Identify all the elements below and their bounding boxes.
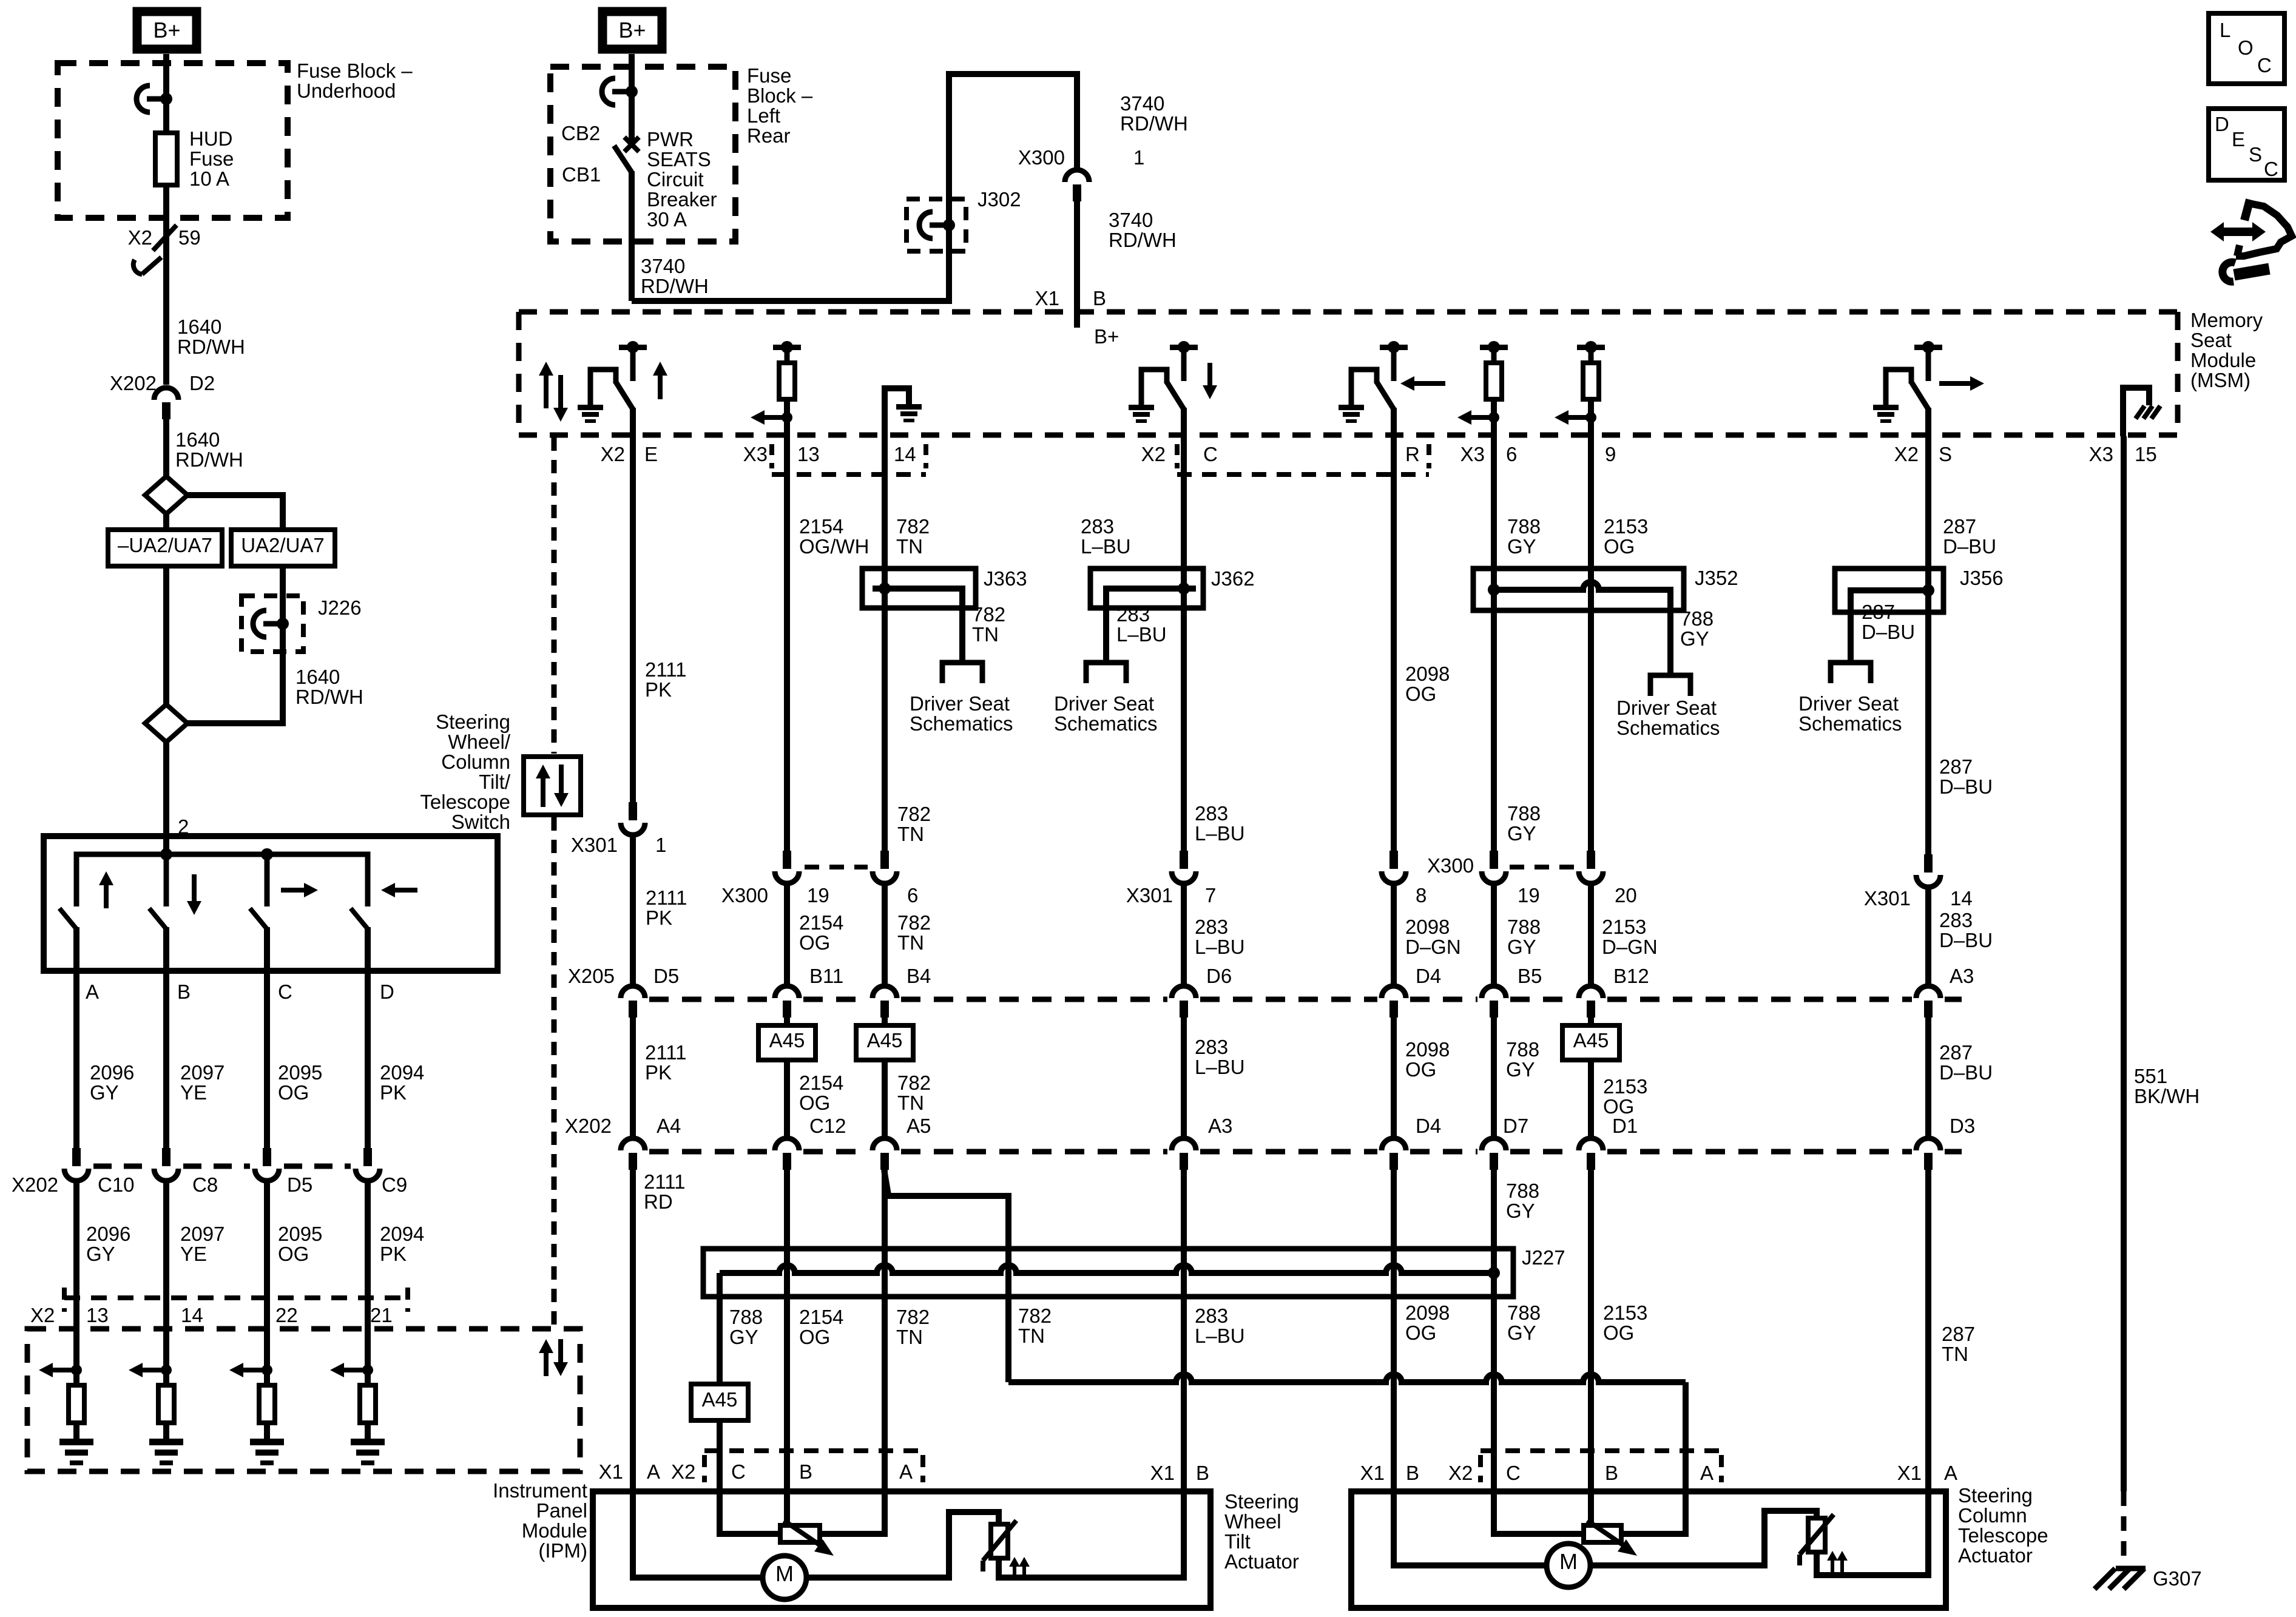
svg-text:13: 13 — [86, 1304, 109, 1326]
wire J352 to X300 pin 19 — [1491, 590, 1497, 851]
bus junction C — [261, 848, 273, 860]
MSM switch arm — [1911, 381, 1929, 410]
IPM ground — [59, 1439, 93, 1445]
wire pin 6 down (788 GY) — [1491, 435, 1497, 569]
svg-text:GY: GY — [1506, 1200, 1535, 1222]
wire X202 to X2 row — [264, 1183, 270, 1329]
wire D3 down (287 TN) — [1925, 1170, 1931, 1491]
svg-text:788: 788 — [729, 1306, 763, 1328]
wire J226 to diamond — [187, 652, 283, 723]
svg-text:9: 9 — [1605, 443, 1616, 465]
connector X300 pin 19 — [783, 851, 791, 869]
svg-text:Column: Column — [1958, 1504, 2027, 1527]
svg-text:GY: GY — [90, 1081, 119, 1104]
MSM switch contact hook — [1351, 370, 1377, 407]
svg-text:Tilt: Tilt — [1224, 1530, 1251, 1553]
connector X205 (x=1951) — [1172, 986, 1196, 998]
wire branch to UA2/UA7 — [187, 495, 283, 530]
connector X202 (x=1043) — [621, 1138, 645, 1150]
svg-text:782: 782 — [897, 1072, 931, 1094]
wire through J352 — [1588, 569, 1594, 851]
circuit breaker contact X — [624, 137, 639, 152]
MSM switch arm — [1166, 381, 1184, 410]
fuse block left rear box — [550, 67, 735, 241]
switch output wire B — [163, 927, 169, 971]
svg-text:B: B — [177, 981, 191, 1003]
svg-text:A3: A3 — [1950, 965, 1974, 987]
svg-text:Driver Seat: Driver Seat — [910, 692, 1010, 715]
svg-text:A45: A45 — [867, 1029, 903, 1052]
splice J302 — [907, 199, 966, 251]
wire connector to diamond — [163, 419, 169, 479]
svg-text:D6: D6 — [1206, 965, 1232, 987]
svg-text:2097: 2097 — [180, 1061, 225, 1084]
wire A45 to D1 — [1588, 1060, 1594, 1137]
svg-text:C: C — [731, 1460, 746, 1483]
svg-text:Driver Seat: Driver Seat — [1054, 692, 1154, 715]
svg-text:S: S — [2249, 143, 2262, 166]
connector X205 (x=2462) — [1482, 986, 1506, 998]
IPM input wire — [163, 1329, 169, 1385]
svg-text:Schematics: Schematics — [1054, 712, 1158, 735]
IPM up/down arrows — [544, 1351, 549, 1376]
MSM X2 connector dashes — [1175, 444, 1180, 468]
svg-text:C: C — [1203, 443, 1218, 465]
svg-text:C: C — [2264, 158, 2278, 180]
switch stub C — [265, 854, 270, 906]
svg-text:Driver Seat: Driver Seat — [1616, 697, 1717, 719]
svg-text:L–BU: L–BU — [1195, 1056, 1245, 1078]
MSM X3 connector dashes — [769, 444, 774, 468]
connector X301 pin 14 — [1924, 854, 1933, 873]
svg-text:GY: GY — [1680, 627, 1709, 650]
wire to X205 D5 — [630, 837, 636, 984]
MSM switch supply bar (pin x=2297) — [1380, 345, 1408, 350]
MSM resistor unit supply bar (x=1297) — [773, 345, 801, 350]
svg-text:C: C — [1506, 1462, 1521, 1484]
wire to X205 B5 — [1491, 886, 1497, 984]
svg-text:X3: X3 — [1460, 443, 1485, 465]
IPM signal arrow — [140, 1368, 166, 1372]
MSM resistor output wire — [1491, 399, 1497, 435]
off-page bracket (driver seat) — [1650, 675, 1690, 696]
wire X300 to MSM X1-B — [1074, 201, 1080, 328]
fuse block underhood box — [58, 63, 288, 218]
connector X300 pin 20 — [1587, 851, 1595, 869]
wire A3-D3 (287 D-BU) — [1925, 1018, 1931, 1137]
svg-text:L–BU: L–BU — [1195, 822, 1245, 845]
svg-text:X1: X1 — [1150, 1462, 1175, 1484]
bus junction B — [160, 848, 172, 860]
svg-text:A5: A5 — [907, 1115, 931, 1137]
wire B12 to A45 — [1588, 1018, 1594, 1025]
svg-text:A: A — [1700, 1462, 1714, 1484]
svg-text:OG: OG — [278, 1081, 309, 1104]
svg-text:X300: X300 — [1018, 146, 1065, 169]
connector X202 (x=1951) — [1172, 1138, 1196, 1150]
svg-text:B+: B+ — [153, 18, 180, 42]
wire X202 to X2 row — [163, 1183, 169, 1329]
svg-text:UA2/UA7: UA2/UA7 — [241, 534, 325, 556]
svg-text:RD/WH: RD/WH — [177, 336, 245, 358]
svg-text:OG: OG — [799, 1092, 830, 1114]
svg-text:C8: C8 — [192, 1173, 218, 1196]
svg-text:Module: Module — [2190, 349, 2256, 371]
svg-text:TN: TN — [1942, 1343, 1968, 1365]
tilt pin B wire — [784, 1491, 790, 1527]
boxed up/down arrows — [541, 776, 545, 807]
svg-text:D–GN: D–GN — [1602, 936, 1658, 958]
svg-text:Actuator: Actuator — [1958, 1544, 2033, 1567]
wire fuse to connector — [163, 185, 169, 385]
svg-text:30 A: 30 A — [647, 208, 687, 231]
svg-text:PK: PK — [645, 678, 672, 701]
connector row X202 (left) — [72, 1148, 81, 1166]
svg-text:S: S — [1939, 443, 1952, 465]
svg-text:8: 8 — [1416, 884, 1427, 906]
svg-text:283: 283 — [1195, 1305, 1228, 1327]
svg-text:GY: GY — [1507, 535, 1536, 558]
svg-text:J227: J227 — [1522, 1246, 1565, 1269]
svg-text:287: 287 — [1939, 755, 1973, 778]
telescope breaker slash — [1800, 1514, 1834, 1555]
svg-text:TN: TN — [972, 623, 999, 646]
svg-text:OG: OG — [799, 931, 830, 954]
svg-text:A: A — [86, 981, 99, 1003]
svg-text:RD/WH: RD/WH — [641, 275, 709, 297]
svg-text:A45: A45 — [769, 1029, 805, 1052]
tilt motor M — [763, 1556, 806, 1599]
connector X300 pin 19 (right) — [1490, 851, 1498, 869]
svg-text:788: 788 — [1506, 1038, 1539, 1061]
svg-text:TN: TN — [897, 931, 924, 954]
wire pin R down (2098 OG) — [1391, 435, 1397, 851]
IPM input wire — [365, 1329, 371, 1385]
svg-text:TN: TN — [897, 1092, 924, 1114]
tilt breaker slash — [983, 1521, 1016, 1561]
svg-text:287: 287 — [1862, 601, 1895, 623]
svg-text:283: 283 — [1195, 802, 1228, 825]
wire switch to X202 — [73, 971, 79, 1148]
svg-text:59: 59 — [178, 226, 201, 249]
svg-text:OG: OG — [1604, 535, 1635, 558]
svg-text:2154: 2154 — [799, 1072, 843, 1094]
svg-text:G307: G307 — [2153, 1567, 2202, 1590]
svg-text:B4: B4 — [907, 965, 931, 987]
relay box A45 — [691, 1384, 748, 1420]
svg-text:Telescope: Telescope — [1958, 1524, 2048, 1547]
svg-text:2153: 2153 — [1603, 1075, 1647, 1098]
MSM switch output wire — [1391, 408, 1397, 435]
IPM input wire — [264, 1329, 270, 1385]
svg-text:B: B — [1406, 1462, 1419, 1484]
relay box A45 — [856, 1025, 913, 1060]
fuse block feed contact — [160, 93, 172, 105]
wire 551 BK/WH — [2121, 436, 2127, 1491]
wire J352 to bracket — [1667, 610, 1673, 675]
telescope motor M — [1547, 1544, 1590, 1587]
svg-text:Module: Module — [522, 1519, 587, 1542]
MSM up/down arrows — [544, 373, 549, 408]
svg-text:OG: OG — [1405, 683, 1436, 705]
MSM resistor — [1583, 363, 1599, 399]
switch arm D — [351, 908, 368, 929]
instrument panel module box — [27, 1329, 580, 1471]
svg-text:2094: 2094 — [380, 1223, 424, 1245]
svg-text:RD/WH: RD/WH — [175, 448, 243, 471]
connector X205 (x=1458) — [873, 986, 897, 998]
svg-text:A45: A45 — [702, 1388, 738, 1411]
MSM switch arm — [615, 381, 633, 410]
svg-text:B+: B+ — [1094, 325, 1119, 348]
svg-text:D–BU: D–BU — [1939, 1061, 1993, 1084]
switch internal bus — [76, 854, 368, 906]
MSM pin15 chassis ground — [2136, 406, 2145, 419]
svg-text:3740: 3740 — [1120, 92, 1164, 115]
MSM resistor — [1486, 363, 1502, 399]
connector X205 (x=1043) — [621, 986, 645, 998]
wire D4-D4 (2098 OG) — [1391, 1018, 1397, 1137]
telescope thermal breaker — [1808, 1518, 1825, 1552]
svg-text:L–BU: L–BU — [1116, 623, 1167, 646]
svg-text:RD/WH: RD/WH — [295, 686, 363, 708]
telescope pin B wire to motor — [1394, 1491, 1547, 1565]
svg-text:2154: 2154 — [799, 515, 843, 538]
svg-text:788: 788 — [1506, 1180, 1539, 1202]
wire breaker down — [629, 171, 635, 301]
svg-text:Schematics: Schematics — [1616, 717, 1720, 739]
svg-text:B11: B11 — [809, 965, 843, 987]
svg-text:X1: X1 — [1897, 1462, 1922, 1484]
X300 row dashes (19-20) — [1510, 865, 1575, 869]
J227 internal bus — [720, 1265, 1494, 1273]
svg-text:Wheel/: Wheel/ — [448, 731, 511, 753]
MSM sense arrow — [762, 415, 787, 420]
wire pin E down (2111 PK) — [630, 435, 636, 802]
svg-text:X2: X2 — [1894, 443, 1919, 465]
svg-text:L–BU: L–BU — [1195, 936, 1245, 958]
svg-text:J352: J352 — [1695, 567, 1738, 589]
wire D6-A3 (283 L-BU) — [1181, 1018, 1187, 1137]
svg-text:CB1: CB1 — [562, 163, 601, 186]
svg-text:Seat: Seat — [2190, 329, 2232, 351]
wire B5-D7 (788 GY) — [1491, 1018, 1497, 1137]
svg-text:X2: X2 — [671, 1460, 695, 1483]
wire UA2/UA7 to J226 — [280, 566, 286, 596]
svg-text:CB2: CB2 — [561, 122, 600, 144]
svg-text:Tilt/: Tilt/ — [479, 771, 511, 793]
svg-text:GY: GY — [1506, 1058, 1535, 1081]
splice J226 — [241, 596, 303, 652]
wire -UA2/UA7 to diamond — [163, 566, 169, 704]
wire pin C down (283 L-BU) — [1181, 435, 1187, 569]
wire A45 to C12 — [784, 1060, 790, 1137]
connector X202 (x=2622) — [1579, 1138, 1603, 1150]
svg-text:B: B — [1093, 287, 1106, 309]
svg-text:X1: X1 — [599, 1460, 623, 1483]
connector X2 row (IPM) — [62, 1288, 67, 1312]
svg-text:Steering: Steering — [436, 711, 510, 733]
connector X301 pin 1 — [629, 802, 637, 820]
svg-text:Panel: Panel — [536, 1499, 587, 1522]
IPM resistor ground wire — [73, 1423, 79, 1439]
MSM switch contact hook — [1141, 370, 1167, 407]
svg-text:22: 22 — [275, 1304, 298, 1326]
wire X202 to X2 row — [365, 1183, 371, 1329]
circuit breaker arm — [614, 146, 632, 172]
connector X202 (x=1458) — [873, 1138, 897, 1150]
svg-text:X301: X301 — [1864, 887, 1911, 910]
IPM ground — [250, 1439, 284, 1445]
telescope motor to breaker wire — [1590, 1511, 1817, 1565]
telescope breaker to pin A wire — [1817, 1491, 1928, 1575]
wire X202 to X2 row — [73, 1183, 79, 1329]
wire switch to X202 — [163, 971, 169, 1148]
memory seat module box — [519, 309, 2178, 315]
svg-text:1640: 1640 — [175, 428, 220, 451]
wire to X205 A3 — [1925, 890, 1931, 984]
telescope pin C wire to pot — [1494, 1491, 1584, 1534]
svg-text:2154: 2154 — [799, 911, 843, 934]
svg-text:287: 287 — [1943, 515, 1976, 538]
svg-text:Column: Column — [441, 751, 510, 773]
MSM switch ground — [578, 405, 603, 410]
svg-text:2111: 2111 — [645, 1041, 687, 1064]
svg-text:YE: YE — [180, 1081, 207, 1104]
J227 bus junction — [1488, 1267, 1500, 1279]
MSM switch ground — [1873, 405, 1899, 410]
svg-text:14: 14 — [1950, 887, 1973, 910]
MSM sense arrow — [1566, 415, 1591, 420]
splice J363 — [862, 569, 976, 608]
wire J362 to X301 pin 7 — [1181, 608, 1187, 851]
svg-text:Left: Left — [747, 104, 780, 127]
wire 782 TN long horizontal — [1008, 1374, 1686, 1382]
wire J362 to bracket — [1103, 608, 1109, 663]
svg-text:788: 788 — [1507, 1301, 1541, 1324]
relay box A45 — [758, 1025, 815, 1060]
MSM resistor output wire — [1588, 399, 1594, 435]
wire pin 14 down (782 TN) — [882, 435, 888, 569]
IPM input wire — [73, 1329, 79, 1385]
svg-text:D5: D5 — [287, 1173, 312, 1196]
association arrow box — [524, 757, 581, 815]
svg-text:2097: 2097 — [180, 1223, 225, 1245]
wire D5-A4 (2111 PK) — [630, 1018, 636, 1137]
svg-text:20: 20 — [1615, 884, 1637, 906]
svg-text:2111: 2111 — [645, 658, 687, 681]
svg-text:OG/WH: OG/WH — [799, 535, 869, 558]
svg-text:Circuit: Circuit — [647, 168, 704, 191]
svg-text:6: 6 — [1506, 443, 1517, 465]
svg-text:2098: 2098 — [1405, 916, 1450, 938]
svg-text:2098: 2098 — [1405, 1301, 1450, 1324]
svg-text:D2: D2 — [189, 372, 215, 394]
junction diamond lower — [145, 704, 187, 742]
svg-text:TN: TN — [896, 535, 923, 558]
ground G307 — [2116, 1566, 2146, 1571]
svg-text:X205: X205 — [568, 965, 615, 987]
svg-text:Breaker: Breaker — [647, 188, 717, 211]
svg-text:PK: PK — [646, 906, 672, 929]
svg-text:A4: A4 — [657, 1115, 681, 1137]
svg-text:B: B — [799, 1460, 812, 1483]
icon DESC box — [2209, 109, 2284, 180]
svg-text:X1: X1 — [1035, 287, 1059, 309]
splice J356 — [1835, 569, 1943, 612]
IPM pull-up resistor — [360, 1385, 376, 1423]
svg-text:OG: OG — [1405, 1322, 1436, 1344]
J227 bus drop — [717, 1273, 723, 1384]
svg-text:(MSM): (MSM) — [2190, 369, 2250, 391]
svg-text:283: 283 — [1195, 1036, 1228, 1058]
svg-text:2153: 2153 — [1602, 916, 1646, 938]
svg-text:SEATS: SEATS — [647, 148, 711, 170]
svg-text:15: 15 — [2135, 443, 2157, 465]
svg-text:3740: 3740 — [1109, 209, 1153, 231]
connector X300 pin 6 — [880, 851, 889, 869]
svg-text:3740: 3740 — [641, 255, 685, 277]
wire D7 down (788 GY) — [1491, 1170, 1497, 1491]
svg-text:Underhood: Underhood — [297, 79, 396, 102]
tilt pin A2 wire to pot — [820, 1491, 885, 1534]
wire A45 to A5 — [882, 1060, 888, 1137]
connector X205 (x=2622) — [1579, 986, 1603, 998]
wire C12 down (2154 OG) — [784, 1170, 790, 1491]
wire 782 TN jog — [887, 1196, 1008, 1382]
IPM pull-up resistor — [69, 1385, 84, 1423]
tilt breaker arrows — [1013, 1564, 1016, 1580]
svg-text:OG: OG — [1603, 1322, 1634, 1344]
icon LOC box — [2209, 13, 2284, 84]
wire J356 to X301 pin 14 — [1925, 590, 1931, 854]
tilt pin A wire to motor — [633, 1491, 763, 1578]
steering wheel tilt actuator box — [593, 1491, 1210, 1608]
svg-text:13: 13 — [797, 443, 820, 465]
tilt motor to breaker wire — [806, 1512, 999, 1578]
connector X205 (x=2297) — [1382, 986, 1406, 998]
svg-text:PK: PK — [645, 1061, 672, 1084]
MSM resistor — [779, 363, 795, 399]
splice J362 — [1090, 569, 1203, 608]
connector X202 pin D2 — [154, 388, 178, 400]
svg-text:X301: X301 — [571, 834, 618, 856]
connector X202 (x=2297) — [1382, 1138, 1406, 1150]
svg-text:E: E — [2232, 128, 2245, 150]
switch output wire C — [264, 927, 270, 971]
svg-text:2154: 2154 — [799, 1306, 843, 1328]
off-page bracket (driver seat) — [942, 663, 982, 683]
svg-text:GY: GY — [729, 1326, 758, 1348]
connector X300 pin 1 — [1065, 170, 1089, 182]
svg-text:Fuse: Fuse — [189, 147, 234, 170]
svg-text:GY: GY — [86, 1243, 115, 1265]
svg-text:X2: X2 — [30, 1304, 55, 1326]
wire breaker to J302 — [632, 251, 949, 301]
switch stub B — [164, 854, 169, 906]
svg-text:C12: C12 — [809, 1115, 846, 1137]
connector X205 (x=3178) — [1916, 986, 1940, 998]
connector X202 (x=3178) — [1916, 1138, 1940, 1150]
svg-text:Fuse Block –: Fuse Block – — [297, 59, 413, 82]
svg-text:7: 7 — [1205, 884, 1216, 906]
IPM resistor ground wire — [163, 1423, 169, 1439]
svg-text:HUD: HUD — [189, 127, 233, 150]
svg-text:C: C — [278, 981, 292, 1003]
MSM switch output wire — [1181, 408, 1187, 435]
svg-text:Rear: Rear — [747, 124, 791, 147]
tilt position sensor — [780, 1525, 820, 1542]
